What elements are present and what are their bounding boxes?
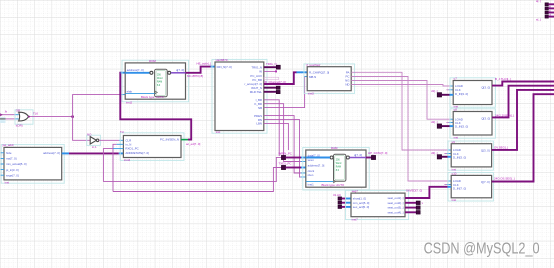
wire latch WAIT_N to port xyxy=(264,87,277,89)
wire latch NB up to if_touch pin2 xyxy=(264,77,307,108)
input port sec_act xyxy=(338,205,342,208)
output port seg4 xyxy=(416,211,420,215)
input port WR_N xyxy=(279,152,292,160)
label inst1 xyxy=(308,183,314,187)
pin stubs left of address block xyxy=(1,153,4,175)
output port seg3 xyxy=(416,206,420,210)
reg2 block U10 xyxy=(453,112,492,136)
pin label rom address xyxy=(127,68,144,72)
label net q4 xyxy=(494,177,515,181)
wire OR output to junction xyxy=(28,116,73,118)
label inst9 xyxy=(92,145,97,149)
label inst2 xyxy=(126,100,132,104)
label mid_addr xyxy=(197,62,212,66)
svg-text:inst5: inst5 xyxy=(308,91,314,95)
wire port d2 to reg2 xyxy=(442,125,454,127)
svg-text:MB.N: MB.N xyxy=(309,75,316,79)
label title ROM xyxy=(149,59,156,63)
svg-text:jsq_addr: jsq_addr xyxy=(2,143,14,147)
label frame IR_Channel xyxy=(264,77,286,84)
svg-text:NO: NO xyxy=(87,132,92,136)
pin labels keyscan xyxy=(125,138,179,155)
wire if_touch out1 to reg3 pin1 xyxy=(351,72,451,150)
output port TRIG_N xyxy=(266,62,280,69)
svg-text:sec_act[5..0]: sec_act[5..0] xyxy=(353,205,370,209)
svg-text:HE_addr[..]: HE_addr[..] xyxy=(197,62,212,66)
pin label rom q xyxy=(176,68,184,72)
wire keyscan pin3 from long line A xyxy=(103,149,123,182)
label title address-generator xyxy=(2,143,14,147)
keyscan block U4 xyxy=(123,136,181,158)
svg-text:RAM: RAM xyxy=(331,146,338,150)
label title reg3 xyxy=(452,140,456,144)
input port TXD1 xyxy=(279,162,292,170)
svg-text:inst7: inst7 xyxy=(352,217,358,221)
svg-text:RAM: RAM xyxy=(157,81,162,84)
label Block type AUTO xyxy=(141,95,165,99)
svg-text:Q[7..0]: Q[7..0] xyxy=(481,180,490,184)
svg-text:24O.OS.SEG[..]: 24O.OS.SEG[..] xyxy=(494,177,515,181)
wire seg out3 to port xyxy=(405,207,416,209)
svg-text:if_touchscr: if_touchscr xyxy=(307,63,321,67)
latch block U6 xyxy=(215,62,264,131)
if_touch selection box xyxy=(304,64,355,94)
svg-text:MC-8870(:8): MC-8870(:8) xyxy=(187,74,203,78)
wire keyscan output to ROM address (bus) xyxy=(120,73,191,140)
svg-text:TRIG_N: TRIG_N xyxy=(266,62,277,66)
reg4 block U12 xyxy=(451,175,491,197)
label title reg2 xyxy=(454,108,458,112)
wire ram q to port xyxy=(366,157,371,159)
svg-text:seg7: seg7 xyxy=(352,189,359,193)
address-generator block selection box xyxy=(1,145,64,184)
not-gate selection box xyxy=(87,135,101,145)
svg-text:PC_IN/SEN_N: PC_IN/SEN_N xyxy=(160,138,179,142)
clk pin stubs (unconnected) xyxy=(444,90,453,185)
pin labels if_touch xyxy=(309,70,350,86)
svg-text:B_J.TH.N[..]: B_J.TH.N[..] xyxy=(495,77,511,81)
label title RAM xyxy=(331,146,338,150)
svg-text:i(OR): i(OR) xyxy=(16,124,23,128)
svg-text:a[..]: a[..] xyxy=(536,0,541,3)
label ac_ed xyxy=(186,142,201,146)
pin label latch din xyxy=(217,65,232,69)
svg-text:TXD1_PC: TXD1_PC xyxy=(279,162,292,166)
svg-text:d3[..]: d3[..] xyxy=(431,151,438,155)
wire rom clk internal xyxy=(125,92,154,94)
pin labels address block inputs xyxy=(6,151,27,177)
wire port sec_act to seg pin3 xyxy=(342,206,351,208)
input port show xyxy=(333,193,342,200)
svg-text:d2[..]: d2[..] xyxy=(431,120,438,124)
wire latch W stub xyxy=(264,70,277,72)
label inst xyxy=(5,180,10,184)
svg-text:rden: rden xyxy=(308,173,314,177)
latch selection box xyxy=(212,59,267,133)
svg-text:Q[3..0]: Q[3..0] xyxy=(481,149,490,153)
svg-text:ND: ND xyxy=(345,83,349,87)
wire clk input to OR gate xyxy=(0,113,19,116)
output port MLR xyxy=(276,90,280,93)
svg-text:DIN_N[7..0]: DIN_N[7..0] xyxy=(217,65,232,69)
label title keyscan xyxy=(120,130,124,134)
pin labels reg2 xyxy=(455,117,490,129)
svg-text:hide: hide xyxy=(6,151,12,155)
svg-text:inst: inst xyxy=(5,180,10,184)
svg-text:31.AC: 31.AC xyxy=(333,193,341,197)
wire rom q to latch input xyxy=(186,67,216,73)
long wire B horizontal xyxy=(113,168,281,192)
seg decoder block U13 xyxy=(351,193,405,217)
label inst4 xyxy=(124,158,130,162)
pin labels latch outputs xyxy=(244,65,262,125)
label title if_touch xyxy=(307,63,321,67)
address-generator block U3 xyxy=(4,147,62,180)
wire reg3 q to right edge xyxy=(492,90,554,150)
wire second input (gray net) to OR gate xyxy=(0,118,19,120)
svg-text:pi_in[3..0]: pi_in[3..0] xyxy=(6,168,19,172)
svg-text:ma[7..0]: ma[7..0] xyxy=(6,157,17,161)
svg-text:inst1: inst1 xyxy=(308,183,314,187)
svg-text:e[..]: e[..] xyxy=(536,17,541,21)
label inst xyxy=(216,130,221,134)
svg-text:SAVED[7..0]: SAVED[7..0] xyxy=(406,188,422,192)
wire latch RN down to RAM rden xyxy=(264,120,306,177)
not-gate U2 xyxy=(90,137,99,144)
svg-text:seat_out2[..]: seat_out2[..] xyxy=(387,201,403,205)
label net TL6 xyxy=(33,111,38,115)
svg-text:q[7..0]: q[7..0] xyxy=(354,153,362,157)
input port clk (off-canvas stub highlight) xyxy=(0,117,6,123)
label inst r3 xyxy=(452,168,457,172)
label inst r2 xyxy=(454,136,459,140)
svg-text:Word: Word xyxy=(336,162,342,165)
wire junction down to NOT gate input xyxy=(73,117,90,141)
pin labels reg3 xyxy=(453,148,490,159)
svg-text:CSDN @MySQL2_0: CSDN @MySQL2_0 xyxy=(424,241,540,258)
svg-text:sege[7..0]: sege[7..0] xyxy=(6,173,19,177)
svg-text:q[7..0]: q[7..0] xyxy=(176,68,184,72)
if_touch block U8 xyxy=(307,67,351,91)
pin label address output xyxy=(43,151,60,155)
label OR xyxy=(16,109,20,113)
wire ram internal data xyxy=(306,157,330,159)
svg-text:Q[3..0]: Q[3..0] xyxy=(481,86,490,90)
wire port d1 to reg1 xyxy=(442,94,454,96)
output port bus2 top right xyxy=(545,7,554,10)
svg-text:min_actual[5..0]: min_actual[5..0] xyxy=(6,162,27,166)
wire reg2 q to right edge xyxy=(492,86,554,118)
wire latch MLR to port xyxy=(264,91,277,93)
output port seg2 xyxy=(416,201,423,205)
output port HP_DATA xyxy=(368,151,388,160)
svg-text:TL6: TL6 xyxy=(33,111,38,115)
svg-text:Block type: AUTO: Block type: AUTO xyxy=(322,183,346,187)
label clk xyxy=(5,110,8,114)
output port bus1 top right xyxy=(545,3,554,6)
svg-text:24(2.2)SE.N[..]: 24(2.2)SE.N[..] xyxy=(495,114,514,118)
label title reg1 xyxy=(454,77,458,81)
label net q3 xyxy=(494,146,508,150)
wire if_touch out3 to reg2 pin1 xyxy=(351,81,453,120)
RAM selection box xyxy=(303,147,369,190)
label title latch xyxy=(216,58,228,62)
reg1 selection box xyxy=(450,78,495,107)
svg-text:ADDRETATE[7..0]: ADDRETATE[7..0] xyxy=(125,151,149,155)
svg-text:RAM: RAM xyxy=(336,166,341,169)
svg-text:u10: u10 xyxy=(452,171,457,175)
svg-text:PC_BR: PC_BR xyxy=(252,78,262,82)
wire if_touch out4 to reg1 pin1 xyxy=(351,85,453,87)
svg-text:HP_DATA[7..0]: HP_DATA[7..0] xyxy=(368,151,388,155)
svg-text:Block type: AUTO: Block type: AUTO xyxy=(141,95,165,99)
svg-text:RXD1_PC: RXD1_PC xyxy=(125,147,138,151)
label title reg4 xyxy=(452,171,457,175)
label rom clk xyxy=(127,90,133,94)
label MC-8870 xyxy=(187,74,203,78)
input port d3 xyxy=(431,151,442,159)
svg-text:seat_out4[..]: seat_out4[..] xyxy=(387,210,403,214)
watermark xyxy=(424,241,541,259)
svg-text:Uart8870: Uart8870 xyxy=(216,58,228,62)
wire seg out1 to reg4 d_in xyxy=(405,187,451,198)
wire TXD1 port to RAM address xyxy=(286,167,306,169)
long wire A horizontal xyxy=(103,157,281,181)
wire latch TRIG_N to port xyxy=(264,66,277,68)
output port bus4 top right xyxy=(545,15,554,18)
svg-text:R_CH/IRQ[7..0]: R_CH/IRQ[7..0] xyxy=(309,71,329,75)
svg-text:inst4: inst4 xyxy=(124,158,130,162)
wire port min_act to seg pin2 xyxy=(342,202,351,204)
label Block type AUTO ram xyxy=(322,183,346,187)
pin label ram q xyxy=(354,153,362,157)
output port bus3 top right xyxy=(545,11,554,14)
svg-text:MLR.TEL: MLR.TEL xyxy=(250,90,263,94)
output port WAIT_N xyxy=(276,86,280,89)
rom memory symbol xyxy=(150,69,171,96)
svg-text:u7: u7 xyxy=(454,77,458,81)
reg1 block U9 xyxy=(453,81,492,105)
wire reg1 q to right edge xyxy=(492,82,554,86)
wire ram clock internal xyxy=(306,180,336,183)
svg-text:seat_out1[..]: seat_out1[..] xyxy=(387,196,403,200)
svg-text:inst2: inst2 xyxy=(126,100,132,104)
label inst r1 xyxy=(454,105,459,109)
svg-text:address[7..0]: address[7..0] xyxy=(43,151,60,155)
pin labels reg4 xyxy=(453,179,490,190)
wire rom internal q xyxy=(171,72,186,74)
svg-text:u9: u9 xyxy=(452,140,456,144)
keyscan block selection box xyxy=(120,133,184,161)
label inst5 xyxy=(308,91,314,95)
svg-text:ROM: ROM xyxy=(149,59,156,63)
label inst r4 xyxy=(452,198,457,202)
label NOT xyxy=(87,132,92,136)
wire WR_N port to RAM data xyxy=(286,157,306,159)
svg-text:TU: TU xyxy=(120,130,124,134)
wire seg out2 to port xyxy=(405,202,416,204)
wire reg4 q to right edge xyxy=(492,94,554,181)
input port d2 xyxy=(431,120,442,128)
label ports top right xyxy=(536,0,551,21)
reg3 selection box xyxy=(448,141,493,170)
pin labels seg xyxy=(353,196,404,214)
node junction A xyxy=(71,115,74,118)
svg-text:WR/N_PC: WR/N_PC xyxy=(279,152,292,156)
svg-text:d1[..]: d1[..] xyxy=(431,89,438,93)
wire latch I_BR down xyxy=(264,100,279,156)
wire port d3 to reg3 xyxy=(442,156,452,158)
wire latch K_BR down to RAM wren xyxy=(264,104,306,162)
or-gate U1 xyxy=(19,112,29,121)
svg-text:ac_ed[7..0]: ac_ed[7..0] xyxy=(186,142,201,146)
svg-text:elab: elab xyxy=(127,90,133,94)
input port d1 xyxy=(431,89,442,97)
wire latch LBN down xyxy=(264,123,289,150)
pin labels RAM xyxy=(308,153,325,177)
wire port show to seg pin1 xyxy=(342,198,351,200)
svg-text:D_IN[7..0]: D_IN[7..0] xyxy=(453,187,466,191)
ROM block U5 xyxy=(125,63,185,99)
svg-text:D_IN[3..0]: D_IN[3..0] xyxy=(455,125,468,129)
svg-text:D_IN[3..0]: D_IN[3..0] xyxy=(453,156,466,160)
svg-text:OR: OR xyxy=(16,109,20,113)
wire seg out4 to port xyxy=(405,211,416,213)
svg-text:OV.SEG[..]: OV.SEG[..] xyxy=(494,146,508,150)
svg-text:LBN: LBN xyxy=(256,122,262,126)
input port min_act xyxy=(338,201,342,204)
svg-text:inst: inst xyxy=(452,198,457,202)
ram memory symbol xyxy=(330,154,349,181)
wire keyscan pin2 from long line B xyxy=(113,144,123,191)
svg-text:NB: NB xyxy=(258,106,262,110)
svg-text:inst: inst xyxy=(216,130,221,134)
ROM selection box xyxy=(122,60,189,102)
svg-text:in.1: in.1 xyxy=(92,145,97,149)
wire NOT output to keyscan pin1 xyxy=(99,139,124,141)
svg-text:Q[3..0]: Q[3..0] xyxy=(481,117,490,121)
svg-text:address[7..0]: address[7..0] xyxy=(308,163,325,167)
label SAVED xyxy=(406,188,422,192)
svg-text:D_IN[3..0]: D_IN[3..0] xyxy=(455,92,468,96)
wire address bus to keyscan pin4 xyxy=(62,152,124,154)
RAM block U7 xyxy=(306,150,366,187)
wire ram internal q xyxy=(350,157,367,159)
reg3 block U11 xyxy=(451,144,491,167)
seg decoder selection box xyxy=(346,190,409,219)
pin labels reg1 xyxy=(455,84,490,96)
wire latch r_accept bus to if_touch pin1 xyxy=(264,72,307,84)
wire junction up to ROM clk xyxy=(73,95,126,117)
svg-text:address[7..0]: address[7..0] xyxy=(127,68,144,72)
reg2 selection box xyxy=(450,109,495,138)
label net q2 xyxy=(495,114,514,118)
wire rom internal address xyxy=(125,72,150,74)
wire if_touch out2 to reg4 pin1 xyxy=(351,77,451,182)
label net q1 xyxy=(495,77,511,81)
label inst8 xyxy=(16,124,23,128)
wire latch PDES down to RAM clk xyxy=(264,116,306,173)
label title seg xyxy=(352,189,359,193)
svg-text:seat_out3[..]: seat_out3[..] xyxy=(387,206,403,210)
label inst7 xyxy=(352,217,358,221)
svg-text:Word: Word xyxy=(157,77,163,80)
reg4 selection box xyxy=(448,173,493,201)
or-gate selection box xyxy=(15,110,33,124)
svg-text:u8: u8 xyxy=(454,108,458,112)
